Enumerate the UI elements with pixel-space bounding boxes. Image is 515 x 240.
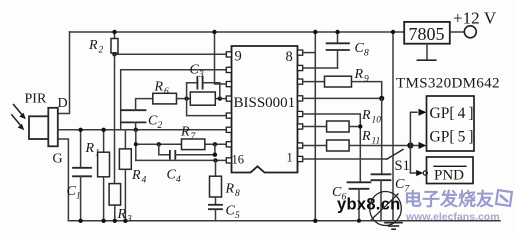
node R1 source row xyxy=(101,128,105,132)
node long vertical bottom xyxy=(313,219,317,223)
svg-text:R: R xyxy=(361,108,371,123)
node C2 source row junction xyxy=(134,128,138,132)
node C8 top rail xyxy=(335,30,339,34)
label R2 xyxy=(88,38,104,56)
wire junction jog to pin row5 xyxy=(187,99,227,116)
resistor R11 xyxy=(303,140,411,151)
svg-text:8: 8 xyxy=(364,49,369,59)
capacitor C2 xyxy=(121,110,146,122)
terminal +12V circle xyxy=(464,26,476,38)
resistor R1 xyxy=(98,130,110,221)
svg-text:8: 8 xyxy=(235,189,240,199)
wire C2 top stub to R6 row xyxy=(136,99,153,111)
svg-text:R: R xyxy=(88,38,98,53)
resistor R9 xyxy=(303,76,382,98)
overline PND xyxy=(434,165,466,167)
box GP4 GP5 xyxy=(427,96,475,151)
wire top power rail xyxy=(70,31,405,33)
wire C2 bottom stub xyxy=(135,122,137,129)
capacitor C8 xyxy=(327,32,349,68)
wire R5 to pin row xyxy=(215,98,226,100)
wire power drop right xyxy=(392,32,394,221)
svg-text:10: 10 xyxy=(372,116,382,126)
label R10 xyxy=(361,108,381,126)
label R4 xyxy=(131,168,147,186)
svg-text:R: R xyxy=(180,125,190,140)
node C4 bridge corner xyxy=(213,153,217,157)
resistor R4 xyxy=(119,130,131,221)
svg-text:4: 4 xyxy=(142,176,147,186)
svg-text:C: C xyxy=(148,114,158,129)
resistor R8 xyxy=(210,160,222,204)
svg-text:R: R xyxy=(354,67,364,82)
capacitor C3 xyxy=(187,77,220,99)
capacitor C5 xyxy=(209,205,222,221)
regulator 7805 box xyxy=(404,22,450,44)
wire 7805 output to terminal xyxy=(450,31,464,33)
label R8 xyxy=(225,182,241,200)
svg-text:1: 1 xyxy=(95,149,100,159)
node top rail R2 junction xyxy=(112,30,116,34)
svg-text:4: 4 xyxy=(176,175,181,185)
svg-text:GP[ 5 ]: GP[ 5 ] xyxy=(430,129,474,146)
watermark elecfans logo xyxy=(496,190,512,206)
node C4 right junction xyxy=(213,142,217,146)
resistor R7 xyxy=(182,139,205,150)
node long vertical top xyxy=(313,30,317,34)
node C4 left junction xyxy=(157,142,161,146)
svg-text:11: 11 xyxy=(372,137,381,147)
PIR sensor window square xyxy=(29,116,49,139)
svg-text:ybx8.cn: ybx8.cn xyxy=(337,196,401,214)
label R3 xyxy=(117,207,133,225)
svg-text:C: C xyxy=(67,184,77,199)
svg-text:GP[ 4 ]: GP[ 4 ] xyxy=(430,105,474,122)
resistor R2 xyxy=(111,32,118,54)
wire pin16 row xyxy=(136,159,227,161)
arrow into GP4 xyxy=(419,109,427,116)
node R4 ground rail xyxy=(123,219,127,223)
node R1 ground rail xyxy=(101,219,105,223)
node R3 ground rail xyxy=(113,219,117,223)
resistor R5 unlabeled xyxy=(190,92,215,105)
svg-text:2: 2 xyxy=(158,121,163,131)
svg-text:5: 5 xyxy=(235,211,240,221)
node R7 row left junction xyxy=(134,142,138,146)
svg-text:1: 1 xyxy=(76,192,81,202)
box PND xyxy=(427,157,474,184)
wire 7805 ground pin xyxy=(417,44,435,61)
node C1 source row xyxy=(78,128,82,132)
svg-text:R: R xyxy=(225,182,235,197)
resistor R3 xyxy=(109,184,121,221)
svg-text:PIR: PIR xyxy=(25,92,47,107)
wire R6 to R5 xyxy=(177,98,191,100)
svg-text:3: 3 xyxy=(198,70,204,80)
wire pin row5 to C6 riser xyxy=(303,114,361,182)
label C1 xyxy=(67,184,81,202)
label R6 xyxy=(154,80,170,98)
wire feedback loop top to pin xyxy=(121,69,227,71)
label C5 xyxy=(226,204,241,222)
PIR sensor body rectangle xyxy=(48,108,58,147)
svg-text:www.elecfans.com: www.elecfans.com xyxy=(405,211,500,223)
pin squares right side xyxy=(298,50,303,162)
node R8 top junction xyxy=(213,158,217,162)
svg-text:R: R xyxy=(131,168,141,183)
wire pin row4 to switch column xyxy=(303,97,382,99)
label C6 xyxy=(332,185,347,203)
svg-text:6: 6 xyxy=(164,87,169,97)
label R9 xyxy=(354,67,370,85)
wire source output row xyxy=(58,129,227,131)
svg-text:C: C xyxy=(226,204,236,219)
svg-text:D: D xyxy=(58,96,68,111)
node R9 column junction xyxy=(379,96,384,101)
svg-text:R: R xyxy=(117,207,127,222)
arrow into GP5 xyxy=(413,142,427,149)
node R2 bottom junction xyxy=(112,52,116,56)
svg-text:3: 3 xyxy=(126,215,132,225)
svg-text:BISS0001: BISS0001 xyxy=(234,95,296,111)
svg-text:R: R xyxy=(154,80,164,95)
label R11 xyxy=(361,129,380,147)
label R1 xyxy=(85,141,100,159)
svg-text:PND: PND xyxy=(434,168,464,184)
label C7 xyxy=(395,177,411,195)
svg-text:9: 9 xyxy=(235,49,242,65)
svg-text:8: 8 xyxy=(286,49,293,65)
node power drop rail xyxy=(391,30,395,34)
svg-text:电子发烧友: 电子发烧友 xyxy=(404,189,494,210)
wire pin8 up to rail xyxy=(303,52,316,54)
label C4 xyxy=(167,168,182,186)
svg-text:R: R xyxy=(85,141,95,156)
node C3 right junction xyxy=(218,96,222,100)
svg-text:C: C xyxy=(167,168,177,183)
svg-text:2: 2 xyxy=(99,46,104,56)
arrow incident light 2 xyxy=(12,115,24,130)
wire bottom ground rail xyxy=(68,220,500,222)
wire R2 column down to R3 xyxy=(114,54,116,183)
svg-text:C: C xyxy=(355,41,365,56)
svg-text:G: G xyxy=(53,152,63,167)
node C6 ground rail xyxy=(357,219,361,223)
arrow incident light 1 xyxy=(14,105,26,120)
wire PND branch xyxy=(410,146,416,174)
svg-text:+12 V: +12 V xyxy=(453,9,497,28)
capacitor C6 xyxy=(348,182,371,221)
wire GP4 branch xyxy=(410,112,417,145)
label R7 xyxy=(180,125,197,143)
wire left drain drop xyxy=(58,32,70,114)
svg-text:R: R xyxy=(361,129,371,144)
watermark stamp circle xyxy=(370,192,402,226)
ground symbol right xyxy=(385,223,402,230)
wire pin row8 to switch xyxy=(303,158,387,160)
wire switch column V1 xyxy=(381,98,383,174)
wire R7 pin row xyxy=(136,143,227,145)
resistor R6 xyxy=(153,93,177,104)
wire feedback loop left edge xyxy=(120,70,122,130)
svg-text:C: C xyxy=(190,63,200,78)
wire long vertical rail to ground xyxy=(314,32,316,221)
wire source row drop to pin16 row xyxy=(135,130,137,161)
switch S1 arm xyxy=(387,150,403,160)
node GP junction dot xyxy=(407,142,413,148)
node top rail power drop xyxy=(212,30,216,34)
svg-text:9: 9 xyxy=(364,75,369,85)
node R6 output junction xyxy=(184,96,188,100)
label C2 xyxy=(148,114,163,132)
node C1 ground rail xyxy=(78,219,82,223)
wire pin9 row xyxy=(115,53,227,55)
capacitor C1 xyxy=(73,130,91,221)
node R10 output junction xyxy=(358,124,362,128)
pin squares left side xyxy=(226,52,231,163)
capacitor C7 xyxy=(372,174,391,221)
wire gate ground drop xyxy=(58,139,69,221)
label C8 xyxy=(355,41,370,59)
svg-text:S1: S1 xyxy=(395,158,410,174)
svg-text:7805: 7805 xyxy=(409,24,445,44)
svg-text:16: 16 xyxy=(232,153,245,167)
svg-text:1: 1 xyxy=(287,151,293,165)
label C3 xyxy=(190,63,205,81)
wire pin row2 right C8 tap xyxy=(303,67,338,69)
wire power drop to pin xyxy=(215,32,227,84)
arrow into PND with circle xyxy=(416,170,427,176)
op IC BISS0001 box xyxy=(232,46,298,173)
svg-text:TMS320DM642: TMS320DM642 xyxy=(396,76,500,92)
resistor R10 xyxy=(303,121,361,132)
capacitor C4 xyxy=(159,144,215,158)
